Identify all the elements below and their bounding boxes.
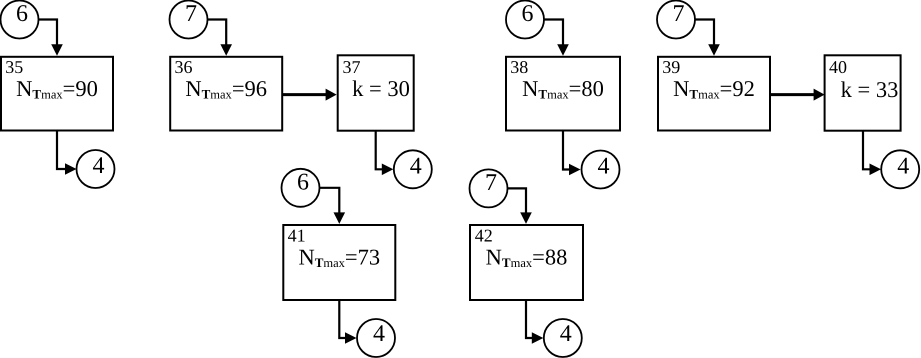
group 2 : node 7	[170, 1, 208, 39]
block 42	[470, 225, 583, 300]
svg-text:4: 4	[93, 153, 105, 179]
wire from block 39 to block 40	[771, 93, 814, 96]
arrowhead into node 4	[870, 164, 882, 176]
arrowhead into block 35	[51, 44, 63, 56]
wire from block 40 to node 4	[863, 131, 871, 170]
arrowhead into node 4	[532, 332, 544, 344]
svg-text:6: 6	[522, 1, 534, 27]
block 37	[338, 55, 414, 130]
svg-text:4: 4	[598, 154, 610, 180]
wire from node 7 to block 42	[508, 188, 527, 213]
wire from block 42 to node 4	[526, 300, 533, 338]
svg-text:4: 4	[897, 153, 909, 179]
svg-text:7: 7	[485, 170, 497, 196]
group 1 : node 4	[77, 150, 115, 188]
wire from node 7 to block 39	[695, 20, 714, 46]
svg-text:37: 37	[343, 57, 361, 77]
block 39	[658, 57, 770, 131]
group 6 : node 4	[544, 319, 582, 357]
svg-text:39: 39	[662, 57, 680, 77]
arrowhead into block 37	[326, 89, 337, 101]
block 41	[283, 225, 395, 300]
svg-text:42: 42	[475, 226, 493, 246]
block 38	[506, 57, 620, 131]
wire from node 7 to block 36	[208, 20, 227, 46]
wire from block 37 to node 4	[376, 131, 383, 170]
group 4 : node 4	[881, 150, 919, 188]
block 35	[1, 57, 113, 131]
arrowhead into node 4	[382, 164, 394, 176]
block 36	[170, 57, 282, 131]
arrowhead into node 4	[65, 163, 77, 175]
arrowhead into node 4	[345, 332, 357, 344]
wire from block 35 to node 4	[57, 131, 66, 170]
svg-text:k = 33: k = 33	[841, 77, 899, 102]
wire from block 41 to node 4	[339, 300, 346, 338]
group 3 : node 4	[582, 151, 620, 189]
svg-text:k = 30: k = 30	[352, 76, 410, 101]
svg-text:38: 38	[510, 57, 528, 77]
svg-text:6: 6	[297, 169, 309, 195]
svg-text:35: 35	[5, 57, 23, 77]
arrowhead into block 40	[814, 89, 825, 101]
svg-text:40: 40	[829, 57, 847, 77]
svg-text:41: 41	[288, 226, 306, 246]
wire from node 6 to block 35	[39, 20, 58, 46]
arrowhead into block 41	[334, 212, 346, 224]
group 5 : node 4	[357, 319, 395, 357]
arrowhead into block 36	[220, 44, 232, 56]
wire from block 38 to node 4	[563, 131, 570, 170]
svg-text:4: 4	[410, 153, 422, 179]
group 1 : node 6	[1, 1, 39, 39]
group 2 : node 4	[394, 150, 432, 188]
group 5 : node 6	[282, 169, 320, 207]
svg-text:4: 4	[560, 321, 572, 347]
group 4 : node 7	[657, 1, 695, 39]
svg-text:36: 36	[175, 57, 193, 77]
arrowhead into block 38	[557, 44, 569, 56]
svg-text:7: 7	[673, 1, 685, 27]
group 3 : node 6	[506, 1, 544, 39]
block 40	[825, 55, 901, 130]
arrowhead into node 4	[569, 164, 581, 176]
svg-text:7: 7	[185, 1, 197, 27]
arrowhead into block 39	[708, 44, 720, 56]
wire from block 36 to block 37	[283, 93, 326, 96]
wire from node 6 to block 38	[544, 20, 563, 46]
svg-text:4: 4	[373, 321, 385, 347]
wire from node 6 to block 41	[320, 188, 340, 214]
svg-text:6: 6	[16, 1, 28, 27]
group 6 : node 7	[470, 169, 508, 207]
arrowhead into block 42	[520, 212, 532, 224]
